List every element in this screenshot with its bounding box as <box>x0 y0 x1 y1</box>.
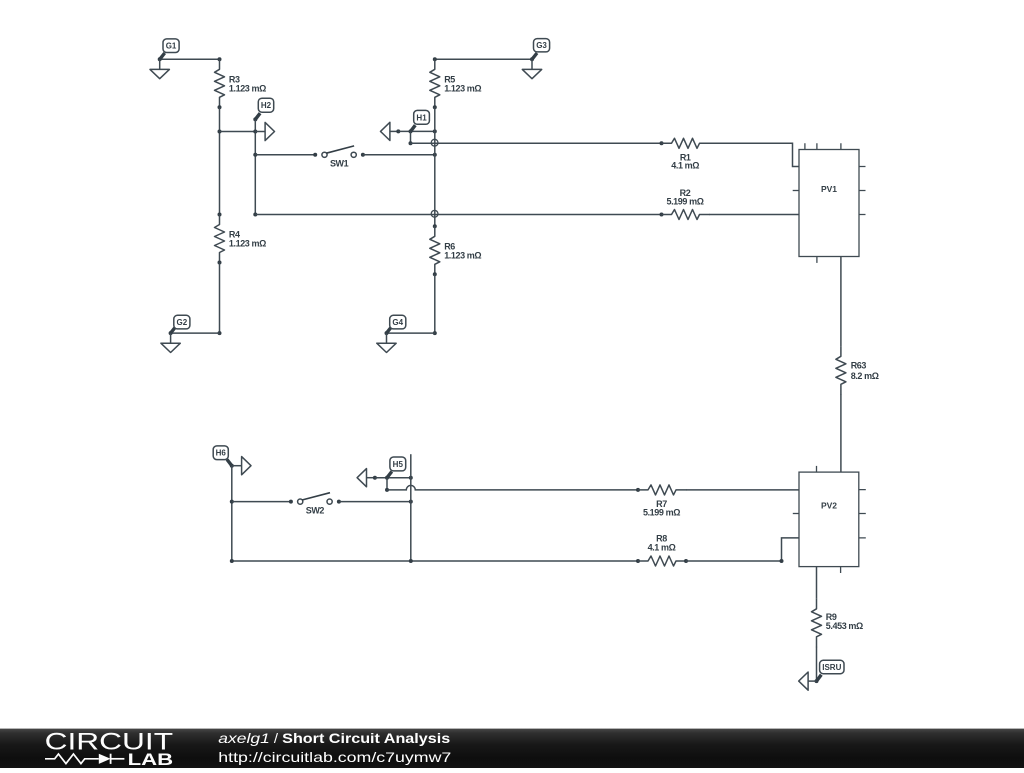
node ISRU anchor <box>815 679 819 683</box>
node R8 left <box>636 559 640 563</box>
svg-text:http://circuitlab.com/c7uymw7: http://circuitlab.com/c7uymw7 <box>218 749 451 765</box>
wire VH2 <box>254 119 256 214</box>
svg-text:5.453 mΩ: 5.453 mΩ <box>826 621 863 631</box>
node R8 jog corner <box>780 559 784 563</box>
svg-text:1.123 mΩ: 1.123 mΩ <box>229 239 266 249</box>
wire H5 row <box>375 477 411 479</box>
node H1 arrow junction <box>396 129 400 133</box>
node G2 anchor <box>169 331 173 335</box>
svg-text:1.123 mΩ: 1.123 mΩ <box>229 83 266 93</box>
svg-text:R63: R63 <box>851 360 867 370</box>
node junction bottom/VW <box>409 559 413 563</box>
svg-text:4.1 mΩ: 4.1 mΩ <box>671 161 699 171</box>
node junction SW2/VW <box>409 500 413 504</box>
svg-text:G4: G4 <box>392 318 403 327</box>
PV2 bottom pin stub <box>840 567 842 573</box>
node SW1 t2 <box>361 153 365 157</box>
wire H1 down <box>410 131 412 143</box>
node H5 arrow junction <box>373 476 377 480</box>
svg-text:SW2: SW2 <box>306 506 325 516</box>
wire H5 to R7 with hop <box>387 485 638 489</box>
svg-text:4.1 mΩ: 4.1 mΩ <box>648 543 676 553</box>
node H6 anchor <box>230 464 234 468</box>
svg-text:G2: G2 <box>177 318 188 327</box>
solar panel PV2 <box>799 472 859 566</box>
node R2 left <box>660 213 664 217</box>
wire SW1 to VM <box>363 154 435 156</box>
switch SW1 <box>322 152 327 157</box>
node G2 corner <box>218 331 222 335</box>
wire VW <box>410 454 412 561</box>
svg-text:8.2 mΩ: 8.2 mΩ <box>851 371 879 381</box>
node R5 top <box>433 57 437 61</box>
wire R2 to PV1 <box>710 214 800 216</box>
svg-text:PV2: PV2 <box>821 501 837 511</box>
wire VH6 <box>231 466 233 561</box>
node SW2 junction <box>230 500 234 504</box>
node junction H5/VW <box>409 476 413 480</box>
svg-text:G1: G1 <box>166 42 177 51</box>
flag arrow H1 <box>390 130 398 132</box>
resistor R1 <box>662 138 711 148</box>
resistor R3 <box>215 59 225 108</box>
node junction H1/VM <box>433 129 437 133</box>
wire crossing hop R1 wire over VM <box>431 139 438 146</box>
flag label box G2 <box>174 315 190 329</box>
flag label box H2 <box>258 98 273 112</box>
wire to G2 <box>171 332 220 334</box>
wire crossing hop R2 wire over VM <box>431 210 438 217</box>
node SW2 t2 <box>337 500 341 504</box>
svg-text:PV1: PV1 <box>821 184 837 194</box>
footer bar <box>0 729 1024 768</box>
wire R7 to PV2 <box>686 489 799 491</box>
wire VM upper <box>434 107 436 226</box>
switch SW2 <box>298 499 303 504</box>
wire H1 to R1 <box>411 142 662 144</box>
node SW1 t1 <box>313 153 317 157</box>
wire R1 to PV1 <box>710 143 800 166</box>
node G4 corner <box>433 331 437 335</box>
wire VM lower <box>434 274 436 333</box>
ground symbol G3 <box>531 59 533 69</box>
svg-text:SW1: SW1 <box>330 159 349 169</box>
ground symbol G4 <box>386 333 388 343</box>
resistor R8 <box>638 556 687 566</box>
PV1 left pin stub <box>793 190 799 192</box>
svg-text:1.123 mΩ: 1.123 mΩ <box>444 250 481 260</box>
wire VL1 <box>219 107 221 214</box>
node H1 corner <box>409 141 413 145</box>
svg-text:H6: H6 <box>216 449 227 458</box>
node G1 anchor <box>158 57 162 61</box>
resistor R6 <box>430 226 440 274</box>
node H2 arrow junction <box>253 130 257 134</box>
resistor R63 <box>836 346 846 395</box>
node junction VL1/H2 <box>218 130 222 134</box>
svg-text:5.199 mΩ: 5.199 mΩ <box>666 197 703 207</box>
svg-text:axelg1 / Short Circuit Analysi: axelg1 / Short Circuit Analysis <box>218 730 450 746</box>
wire H1 to VM <box>398 130 435 132</box>
flag leader G3 <box>532 53 537 59</box>
node H1 anchor <box>409 129 413 133</box>
flag label box ISRU <box>820 660 844 673</box>
wire to SW1 <box>255 154 315 156</box>
wire R8 to PV2 <box>686 538 799 561</box>
node SW1 left junction <box>253 153 257 157</box>
node VH6 corner <box>230 559 234 563</box>
node junction SW1/VM <box>433 153 437 157</box>
node R6 top <box>433 224 437 228</box>
flag leader H2 <box>255 113 260 119</box>
PV2 right pin stubs <box>859 490 866 538</box>
flag leader G2 <box>171 327 176 333</box>
node H5 corner <box>385 488 389 492</box>
node R7 left <box>636 488 640 492</box>
node G3 anchor <box>530 57 534 61</box>
flag leader G4 <box>387 327 392 333</box>
wire <box>160 58 220 60</box>
flag label box H6 <box>213 446 228 460</box>
svg-text:5.199 mΩ: 5.199 mΩ <box>643 507 680 517</box>
resistor R7 <box>638 485 687 495</box>
svg-text:LAB: LAB <box>128 751 174 768</box>
svg-text:H2: H2 <box>261 101 272 110</box>
flag arrow ISRU <box>808 680 816 682</box>
node VH2 corner <box>253 213 257 217</box>
flag leader G1 <box>160 53 165 59</box>
node R1 left <box>660 141 664 145</box>
svg-text:H1: H1 <box>416 113 427 122</box>
node R5 bottom <box>433 105 437 109</box>
flag leader H1 <box>411 125 416 131</box>
node R3 bottom <box>218 105 222 109</box>
resistor R9 <box>812 599 822 648</box>
flag label box G4 <box>390 315 406 329</box>
logo resistor-diode glyph <box>45 754 99 764</box>
resistor R4 <box>215 215 225 264</box>
flag arrow H5 <box>367 477 375 479</box>
flag arrow H6 <box>232 465 242 467</box>
resistor R2 <box>662 210 711 220</box>
flag label box G1 <box>163 39 179 53</box>
wire R9 to ISRU <box>816 647 818 681</box>
node R4 top <box>218 213 222 217</box>
wire R2 left <box>255 214 661 216</box>
node R8 right <box>684 559 688 563</box>
node H5 anchor <box>385 476 389 480</box>
wire to H2 <box>220 131 256 133</box>
node R6 bottom <box>433 272 437 276</box>
PV2 left pin stub <box>793 513 799 515</box>
svg-text:G3: G3 <box>536 41 547 50</box>
wire to SW2 <box>232 501 291 503</box>
wire R63 to PV2 <box>840 394 842 472</box>
PV1 bottom pin stub <box>816 257 818 263</box>
resistor R5 <box>430 59 440 108</box>
wire PV2 to R9 <box>816 567 818 599</box>
node H2 anchor <box>253 117 257 121</box>
flag arrow H2 <box>255 131 265 133</box>
PV1 right pin stubs <box>859 167 866 215</box>
flag leader ISRU <box>817 675 822 681</box>
ground symbol G2 <box>170 333 172 343</box>
flag label box H1 <box>414 110 430 124</box>
svg-text:H5: H5 <box>393 460 404 469</box>
node G4 anchor <box>385 331 389 335</box>
PV2 top pin stub <box>816 466 818 472</box>
solar panel PV1 <box>799 150 859 257</box>
node R4 bottom <box>218 261 222 265</box>
PV1 top pins <box>805 143 841 149</box>
svg-text:1.123 mΩ: 1.123 mΩ <box>444 83 481 93</box>
flag label box G3 <box>534 39 550 52</box>
node R3 top <box>218 57 222 61</box>
wire bottom <box>232 560 638 562</box>
wire SW2 to VW <box>339 501 411 503</box>
flag leader H5 <box>387 472 392 478</box>
wire PV1 to R63 <box>840 257 842 347</box>
wire to G4 <box>387 332 435 334</box>
flag label box H5 <box>390 457 406 471</box>
svg-text:ISRU: ISRU <box>822 663 841 672</box>
flag leader H6 <box>227 460 232 466</box>
node SW2 t1 <box>289 500 293 504</box>
wire H5 down <box>386 478 388 490</box>
ground symbol G1 <box>159 59 161 69</box>
wire VL lower <box>219 263 221 334</box>
wire R5 to G3 <box>435 58 532 60</box>
